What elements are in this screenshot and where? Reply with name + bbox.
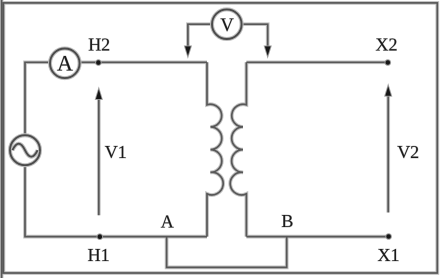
svg-text:H2: H2 [88, 34, 110, 54]
svg-text:B: B [281, 211, 293, 231]
svg-text:H1: H1 [88, 245, 110, 265]
svg-text:V1: V1 [105, 142, 127, 162]
svg-text:X1: X1 [378, 245, 400, 265]
svg-text:X2: X2 [376, 35, 398, 55]
svg-text:A: A [57, 51, 73, 76]
svg-text:V: V [220, 16, 234, 36]
svg-text:A: A [161, 211, 174, 231]
svg-text:V2: V2 [397, 142, 419, 162]
